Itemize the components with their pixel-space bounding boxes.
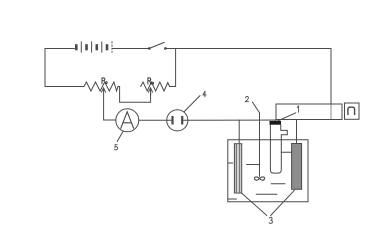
pointer to stirrer rod — [252, 102, 259, 113]
liquid line tube to electrode — [281, 151, 292, 153]
meter U4 (circle with two plates) — [167, 110, 188, 131]
label 1 — [297, 106, 298, 112]
rheostat P (zigzag) — [84, 82, 118, 91]
bar (terminal block) top right — [276, 104, 342, 120]
beaker inner bottom line — [228, 198, 237, 200]
beaker — [228, 139, 308, 141]
wire wiper to ammeter — [104, 119, 116, 121]
main wire to the cell — [188, 119, 276, 121]
wire battery to switch — [113, 48, 149, 50]
right electrode (solid gray) — [292, 144, 302, 190]
stirrer rod — [259, 113, 261, 177]
pointers to label 3 — [242, 193, 267, 215]
battery B1 — [76, 41, 112, 52]
label RB — [148, 78, 154, 84]
rheostat R2 (zigzag) — [141, 82, 170, 91]
wire R1 right end to R2 wiper (U link) — [118, 87, 151, 103]
wire ammeter to meter 4 — [139, 119, 167, 121]
left electrode (striped) — [234, 144, 241, 193]
liquid line bottom — [256, 193, 277, 195]
switch S1 — [148, 47, 151, 50]
rheostat P wiper arrow — [103, 88, 105, 120]
label 3 — [269, 217, 272, 223]
black cap — [270, 121, 282, 125]
plug box — [345, 103, 360, 119]
liquid line left — [247, 164, 260, 166]
rheostat R2 wiper arrow — [148, 88, 152, 92]
label 5 — [115, 145, 118, 150]
label Pa — [102, 78, 107, 84]
label 2 — [245, 96, 248, 101]
liquid line center — [271, 183, 285, 185]
wire to left electrode — [238, 120, 240, 144]
label 4 — [203, 91, 206, 97]
wire junction down to rheostat R2 right end — [170, 49, 176, 87]
tube (test tube) — [270, 125, 287, 173]
liquid tick left wall — [228, 162, 233, 164]
wire switch to top-right corner — [165, 49, 331, 105]
pointer to label 5 — [117, 131, 123, 142]
pointer to label 1 — [278, 113, 296, 121]
stirrer propeller — [254, 177, 264, 180]
wire to right electrode — [296, 120, 298, 144]
pointer to label 4 — [184, 96, 200, 112]
wire bar to cap — [275, 120, 277, 122]
ammeter A (circle) — [116, 109, 139, 132]
wire top-left vertical and battery feed — [45, 49, 84, 87]
